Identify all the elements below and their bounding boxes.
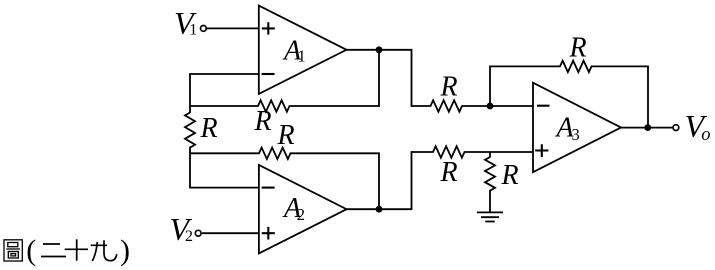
svg-text:): ) [120, 234, 130, 267]
svg-text:1: 1 [298, 46, 306, 65]
svg-text:R: R [501, 160, 519, 191]
svg-text:R: R [200, 113, 218, 144]
svg-text:R: R [254, 106, 272, 137]
svg-text:R: R [440, 157, 458, 188]
svg-text:R: R [277, 120, 295, 151]
svg-text:2: 2 [185, 228, 193, 245]
svg-text:o: o [701, 125, 710, 145]
svg-text:R: R [440, 72, 458, 103]
svg-text:1: 1 [189, 21, 197, 38]
svg-text:(: ( [26, 234, 36, 267]
svg-text:R: R [569, 33, 587, 64]
svg-text:3: 3 [572, 125, 580, 144]
svg-text:2: 2 [297, 205, 305, 224]
